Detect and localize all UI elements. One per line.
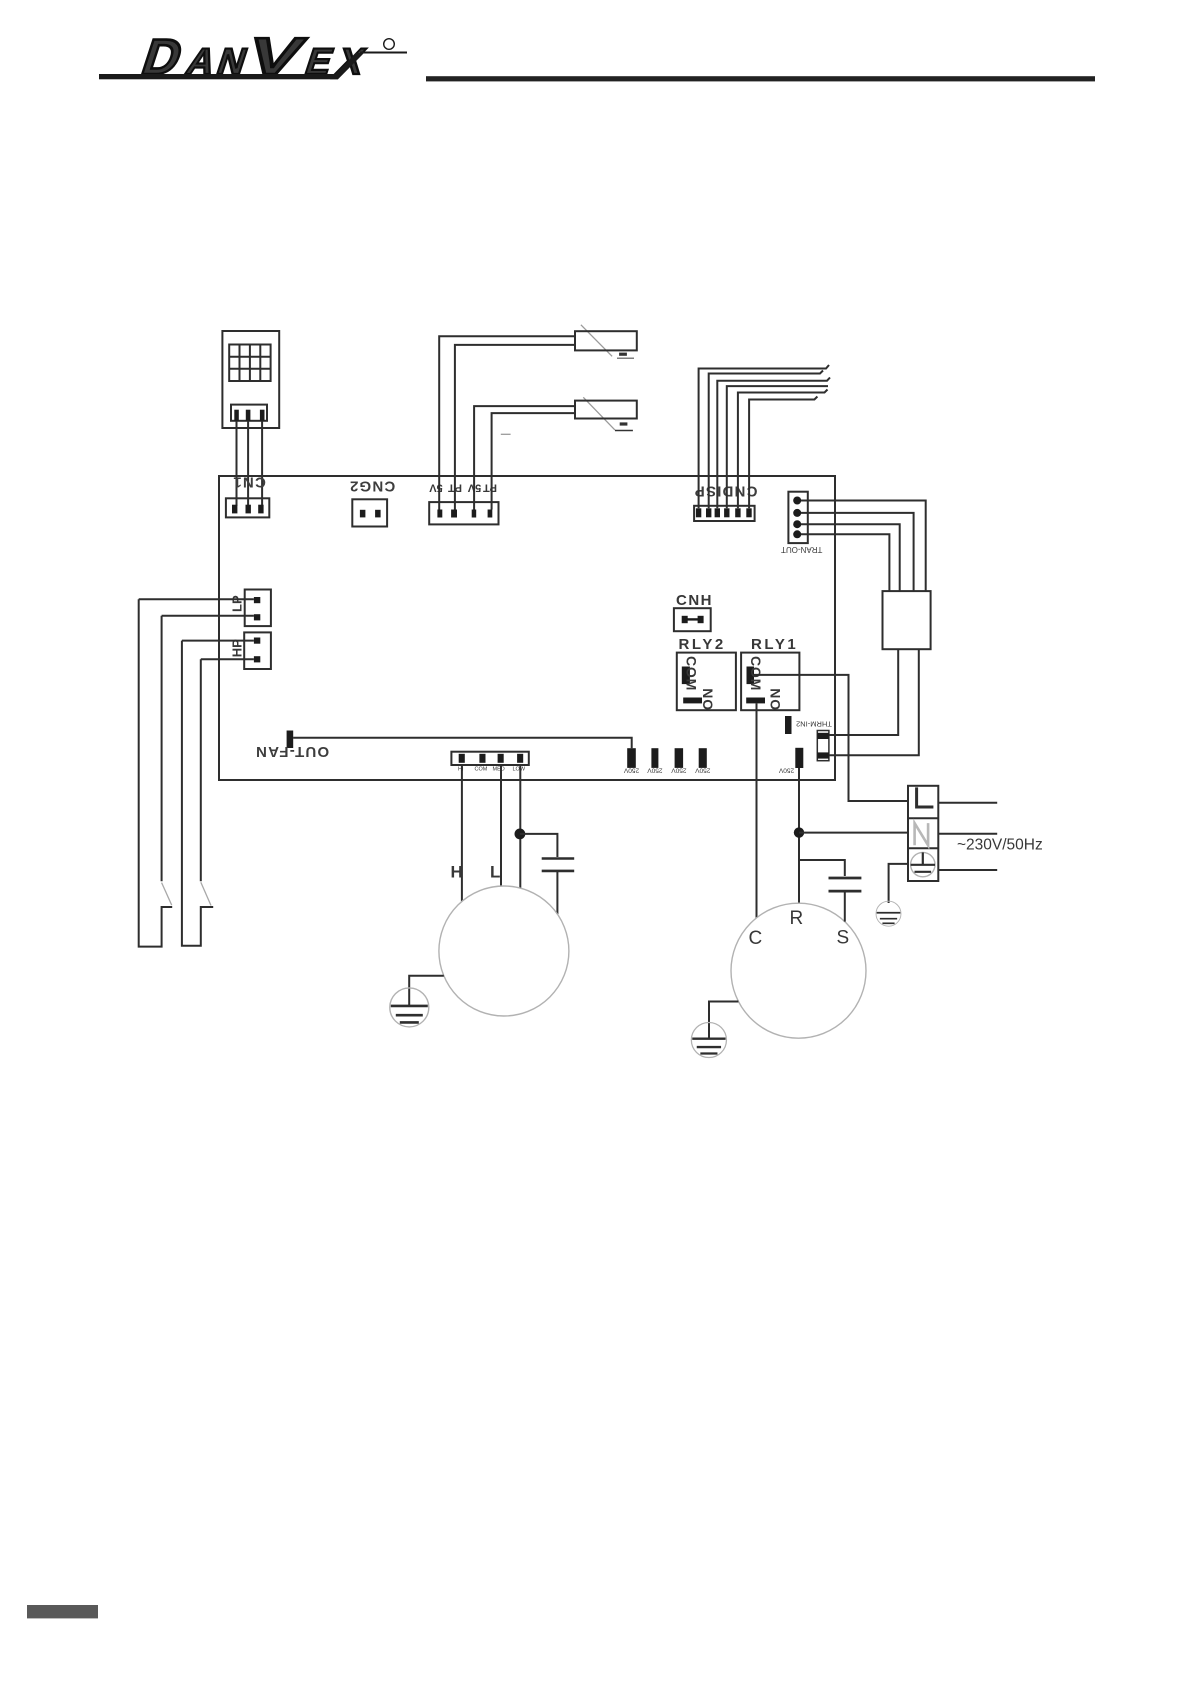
connector LP [230,590,271,627]
wire fan ground [409,976,444,1006]
humidity sensor module [222,331,279,428]
terminal L glyph [917,787,934,807]
relay RLY2 [677,636,736,711]
capacitor C1 [542,859,575,871]
wire TRAN-OUT pin4 to transformer [801,534,889,591]
svg-text:RLY2: RLY2 [679,636,726,653]
wire LP 2 [162,615,254,617]
wire earth to ground [889,864,908,903]
wire probe T1 lead 1 [439,336,575,509]
svg-text:HP: HP [230,639,245,657]
svg-text:NO: NO [700,688,716,711]
ground fan [390,988,429,1027]
pin 250V no.1 with value label [623,748,639,773]
svg-text:R: R [790,908,804,929]
ground compressor [691,1022,726,1057]
wire probe T2 lead 1 [474,406,575,509]
wire N out [938,833,997,835]
connector HP [230,632,271,669]
wire sensor pin3 to CN1 [261,421,263,506]
wire fan common [519,765,521,889]
wire LP 1 [139,598,254,600]
terminal N glyph [915,823,929,845]
fan motor M1 [439,886,569,1016]
wire TRAN-OUT pin2 to transformer [801,513,914,591]
junction dot R/N [794,827,804,837]
pin 250V no.4 with value label [695,748,711,773]
junction dot fan [515,829,526,840]
wire OUT-FAN to 250V pin [293,738,632,748]
svg-text:H: H [451,863,463,882]
svg-text:PT: PT [483,482,497,494]
wire CNDISP pin2 ribbon [709,371,823,509]
pin 250V no.3 with value label [671,748,687,773]
connector CNG2 [349,478,395,527]
wire RLY1 COM to terminal L [754,675,908,801]
stray mark [501,433,511,435]
svg-text:CNDISP: CNDISP [694,482,758,499]
terminal block [908,786,938,881]
wire TRAN-OUT pin3 to transformer [801,524,900,591]
wire sensor pin1 to CN1 [236,421,238,506]
svg-text:250V: 250V [671,766,687,773]
wire C2 to compressor S [844,891,846,922]
pressure switch LP [139,599,173,946]
wire HP 1 [182,640,254,642]
sensor connector 5V/PT [429,482,499,525]
svg-text:~230V/50Hz: ~230V/50Hz [957,837,1043,854]
wire fan H [461,765,463,901]
wire CNDISP pin6 ribbon [749,397,817,509]
wire L out [938,802,997,804]
wire sensor pin2 to CN1 [247,421,249,506]
svg-text:COM: COM [475,767,488,773]
wire fan L [500,765,502,886]
connector CN1 [226,474,269,518]
DanVex logo [99,28,407,86]
pin THRM-IN2 [785,716,832,734]
svg-text:L: L [490,863,500,882]
pressure switch HP [182,641,213,946]
svg-text:OUT-FAN: OUT-FAN [255,743,329,760]
pin 250V (compressor R) [778,748,803,774]
wire CNDISP pin3 ribbon [717,378,830,509]
svg-text:NO: NO [767,688,783,711]
connector TRAN-OUT [781,492,822,554]
svg-text:COM: COM [684,656,700,691]
pin OUT-FAN [255,731,329,760]
ground terminal [876,901,901,926]
svg-text:TRAN-OUT: TRAN-OUT [781,545,822,554]
svg-text:250V: 250V [623,766,639,773]
wire to capacitor C2 [799,860,845,876]
terminal earth symbol [911,852,935,876]
svg-text:LOW: LOW [513,767,526,773]
fan speed connector [451,752,528,773]
connector CNDISP [694,482,758,521]
wire CNDISP pin5 ribbon [738,390,828,509]
wire HP 2 [201,658,254,660]
wire TRAN-OUT pin1 to transformer [801,501,926,592]
header rule [426,76,1095,81]
svg-text:250V: 250V [778,767,794,774]
fuse component [817,731,829,761]
thermistor probe T1 [575,325,637,358]
relay RLY1 [741,636,799,711]
wire probe T2 lead 2 [492,413,575,509]
wire R to junction [798,768,800,903]
svg-text:THRM-IN2: THRM-IN2 [796,720,832,729]
wire earth out [938,869,997,871]
wire CNDISP pin4 ribbon [727,386,828,508]
connector CNH [674,592,713,631]
svg-text:C: C [749,928,763,949]
wire probe T1 lead 2 [455,345,575,510]
svg-text:CNH: CNH [676,592,713,609]
footer gray rectangle [27,1605,98,1618]
thermistor probe T2 [575,397,637,430]
svg-text:250V: 250V [647,766,663,773]
svg-text:LP: LP [230,595,245,612]
transformer [883,591,931,649]
svg-text:S: S [837,928,850,949]
svg-text:MED: MED [493,767,505,773]
wire transformer secondary 1 to fuse [829,649,898,735]
compressor M2 [731,903,866,1038]
wire compressor ground [709,1002,738,1039]
svg-text:COM: COM [748,656,764,691]
wire N junction to terminal block [799,832,908,834]
svg-text:250V: 250V [695,766,711,773]
wire RLY1 NO to compressor C [756,703,758,918]
wire to capacitor C1 [520,834,558,857]
pin 250V no.2 with value label [647,748,663,773]
main control board outline [219,476,835,780]
wire transformer secondary 2 to fuse [829,649,919,755]
wire CNDISP pin1 ribbon [699,365,829,508]
svg-text:CN1: CN1 [232,474,266,491]
wire C1 to fan [556,871,558,914]
svg-text:CNG2: CNG2 [349,478,395,495]
svg-text:5V: 5V [429,482,443,494]
capacitor C2 [829,878,862,891]
svg-text:RLY1: RLY1 [751,636,798,653]
